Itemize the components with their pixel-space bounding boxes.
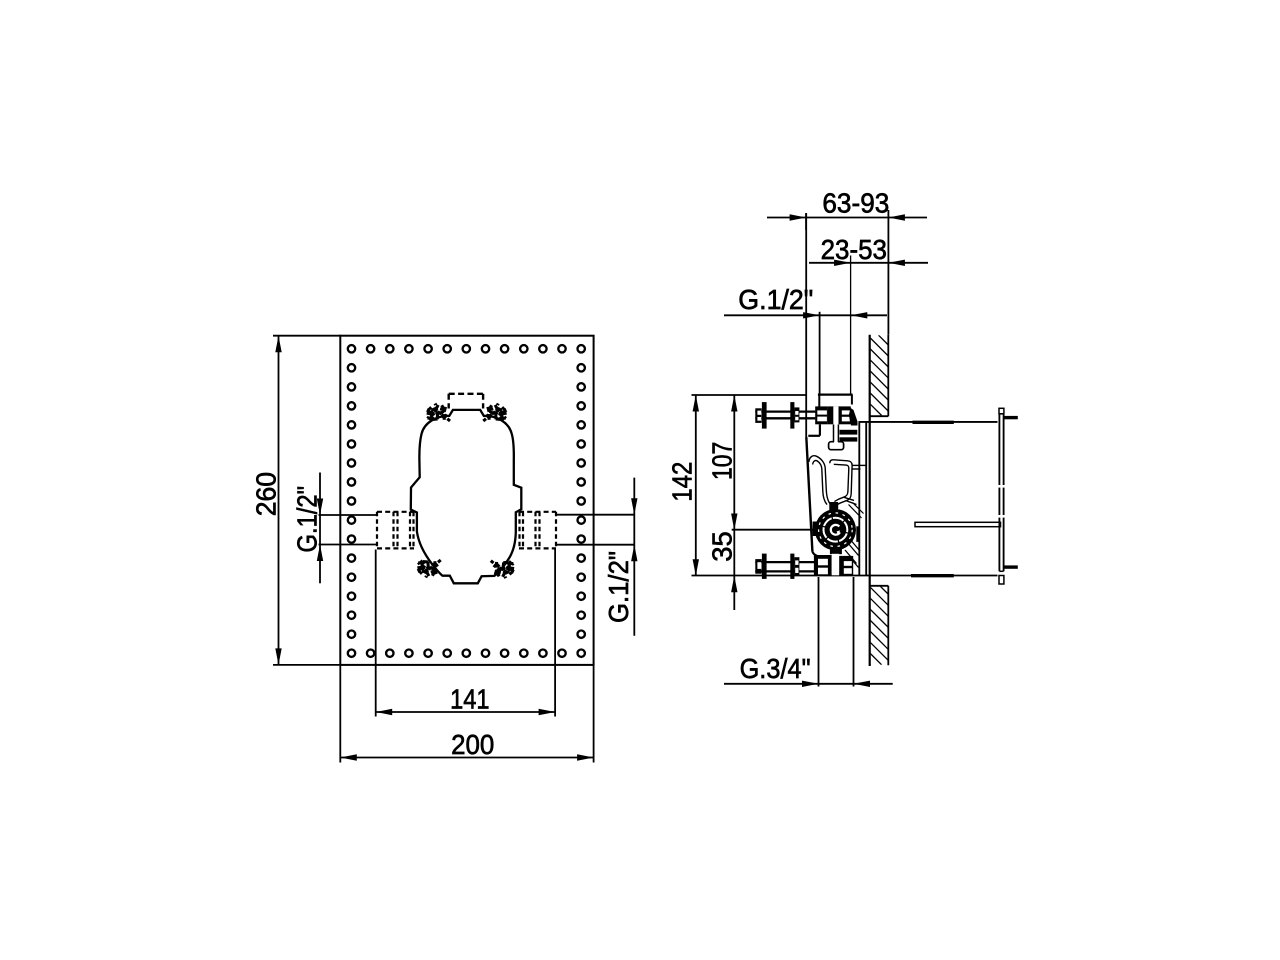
wall section hatching (above opening) (790, 335, 959, 415)
svg-text:107: 107 (707, 442, 738, 480)
svg-text:141: 141 (450, 683, 489, 714)
bottom port union nuts (section) (814, 554, 853, 576)
wall back face / finished surface line (887, 335, 889, 666)
recess box rear flange (998, 408, 1005, 584)
svg-text:G.1/2": G.1/2" (603, 551, 634, 623)
knurl marks bottom-left of body (418, 560, 441, 578)
cartridge slot end cap (829, 425, 844, 450)
mounting holes bottom row (348, 650, 585, 657)
svg-text:63-93: 63-93 (822, 188, 889, 219)
cartridge recess outline (809, 456, 866, 506)
left port stub lines (319, 515, 378, 545)
shading lines near flange (845, 503, 864, 568)
wall opening edges (870, 416, 889, 586)
knurl marks bottom-right of body (491, 561, 514, 579)
dimension 23-53 (809, 234, 928, 394)
label G.1/2 inch (left port) with leader dimension (292, 473, 324, 584)
svg-text:260: 260 (251, 472, 282, 516)
top port union nuts (section) (815, 406, 851, 443)
svg-text:G.3/4": G.3/4" (740, 653, 811, 684)
dimension 35 (707, 531, 738, 592)
wall section hatching (below opening) (792, 587, 959, 665)
dimension 107 (707, 395, 738, 610)
svg-text:G.1/2": G.1/2" (738, 284, 813, 315)
control knob (section) (813, 502, 859, 554)
dimension 141 (bottom, port spacing) (376, 550, 555, 717)
right side port G.1/2 (hidden/dashed) (519, 512, 556, 549)
clamp screws between body and flange (840, 408, 858, 442)
recess box rear mounting ticks (1004, 416, 1018, 569)
svg-text:142: 142 (667, 462, 698, 502)
upper reference extension line (692, 394, 808, 396)
dimension 142 (667, 395, 700, 576)
dimension 63-93 (min-max depth) (767, 188, 927, 335)
mounting bracket top (818, 395, 853, 407)
dimension 260 (left vertical) (251, 336, 342, 665)
recess box front edges (859, 422, 866, 576)
label G.3/4 inch (bottom port) with dimension (724, 577, 893, 687)
wall front face line (869, 335, 871, 666)
svg-text:G.1/2": G.1/2" (292, 486, 323, 553)
body left profile (806, 424, 820, 556)
knob axis extension line (732, 529, 816, 531)
knurl marks top-right of body (483, 404, 506, 422)
svg-text:35: 35 (707, 531, 738, 561)
top port threaded rod and bolts (755, 402, 815, 429)
knurl marks top-left of body (428, 404, 451, 422)
svg-text:200: 200 (451, 729, 494, 760)
svg-text:23-53: 23-53 (821, 234, 887, 265)
mounting holes right column (578, 364, 585, 638)
mounting holes top row (348, 345, 585, 352)
valve body front outline (411, 410, 522, 583)
bottom port threaded rod and bolts (755, 554, 814, 579)
recess box retaining clip (915, 522, 1001, 526)
body front face extension (805, 213, 807, 437)
front view: wall plate outline (340, 336, 593, 665)
recess box top edge (859, 421, 998, 423)
right port stub lines (556, 515, 635, 545)
dimension 200 (bottom, plate width) (340, 665, 593, 763)
mounting holes left column (348, 364, 355, 638)
label G.1/2 inch (top port) with dimension (724, 284, 887, 395)
recess box bottom edge / lower reference line (692, 575, 998, 577)
label G.1/2 inch (right port) with leader dimension (603, 478, 638, 636)
left side port G.1/2 (hidden/dashed) (377, 512, 414, 549)
hidden cap rectangle (dashed) on top of body (449, 394, 483, 409)
